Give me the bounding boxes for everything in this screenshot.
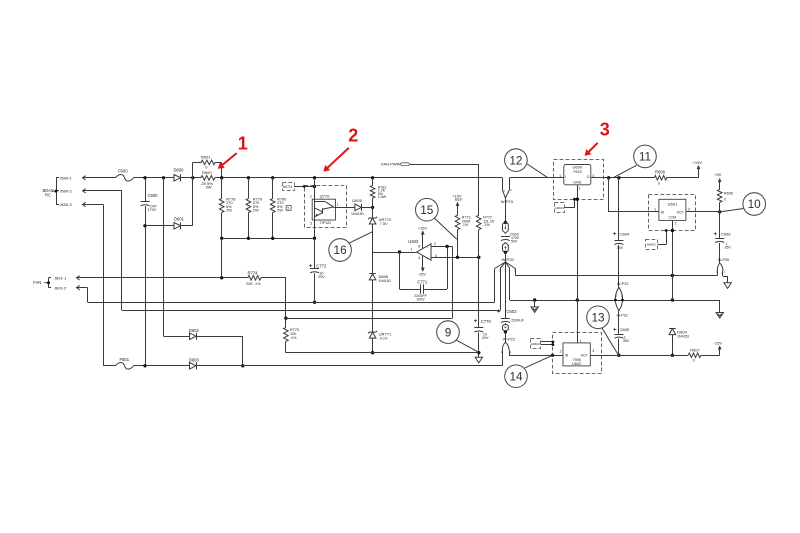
svg-text:.1%: .1% <box>462 223 469 227</box>
svg-text:1N4150: 1N4150 <box>351 212 364 216</box>
zener UR771 <box>368 331 377 334</box>
callout circle 13 <box>601 327 618 356</box>
svg-text:J600-2: J600-2 <box>60 188 73 193</box>
svg-text:D600: D600 <box>174 168 185 173</box>
heatsink H6602 <box>531 339 541 349</box>
svg-text:0: 0 <box>724 198 726 202</box>
svg-text:11: 11 <box>639 150 651 164</box>
svg-text:35V: 35V <box>623 339 630 343</box>
callout circle 9 <box>456 340 479 353</box>
svg-text:12: 12 <box>509 153 522 167</box>
svg-text:50V: 50V <box>511 240 518 244</box>
svg-text:J600-3: J600-3 <box>60 202 73 207</box>
wire D601 cathode up to rail node <box>192 178 194 226</box>
callout circle 12 <box>527 164 548 178</box>
svg-text:1N4150: 1N4150 <box>379 279 391 283</box>
svg-text:1: 1 <box>337 203 339 207</box>
wire W-P25 leg5 bus <box>515 269 517 276</box>
svg-text:C605: C605 <box>620 327 630 332</box>
svg-text:-15V: -15V <box>418 271 427 276</box>
wire U600 GND column <box>577 185 579 343</box>
wire U602 OUT line <box>590 355 688 357</box>
wire U603 output <box>373 252 417 254</box>
svg-text:C772: C772 <box>316 264 327 269</box>
svg-text:C606: C606 <box>721 231 731 236</box>
transistor Q770 dashed box <box>305 186 347 228</box>
capacitor C603 <box>497 311 500 313</box>
wire J600-1 to fuse F600 <box>83 177 116 179</box>
svg-text:2200UF: 2200UF <box>511 319 525 323</box>
capacitor C600 <box>145 178 147 202</box>
wire D600 cathode to node <box>181 177 201 179</box>
ground on leg4 bus <box>534 300 536 307</box>
regulator U601 dashed box <box>649 195 696 231</box>
svg-text:H6602: H6602 <box>531 342 540 346</box>
svg-text:2: 2 <box>310 194 312 198</box>
svg-text:-15V: -15V <box>714 341 723 346</box>
svg-text:7.5V: 7.5V <box>380 222 388 226</box>
svg-text:9: 9 <box>445 325 452 339</box>
regulator U600 dashed box <box>554 160 604 200</box>
wire FAN PWR to R772 <box>410 164 479 166</box>
svg-text:REF: REF <box>455 198 463 202</box>
svg-text:4: 4 <box>418 256 420 260</box>
transistor Q770 TIP122 <box>314 178 316 199</box>
svg-text:D602: D602 <box>189 328 200 333</box>
svg-text:+15V: +15V <box>693 160 703 165</box>
svg-text:3: 3 <box>592 349 594 353</box>
svg-text:13: 13 <box>591 311 605 325</box>
svg-text:3: 3 <box>600 119 610 139</box>
svg-text:OUT: OUT <box>677 211 684 215</box>
wire rail through U600 to R606 <box>510 177 564 179</box>
regulator U602 7905 <box>563 343 590 366</box>
svg-text:TIP122: TIP122 <box>320 221 332 225</box>
svg-text:2: 2 <box>675 222 677 226</box>
regulator U601 <box>659 199 686 220</box>
svg-text:R601: R601 <box>201 155 211 160</box>
svg-text:1N4150: 1N4150 <box>677 334 689 338</box>
svg-text:F600: F600 <box>118 169 128 174</box>
boxed label 5 near R780 <box>286 206 291 211</box>
svg-text:FAN: FAN <box>33 280 41 285</box>
svg-text:35V: 35V <box>617 246 624 250</box>
svg-text:.1%: .1% <box>483 223 490 227</box>
capacitor C606 <box>714 233 717 235</box>
svg-text:C604: C604 <box>620 232 630 237</box>
svg-text:H6603: H6603 <box>647 243 656 247</box>
connector pin W-P23 lower <box>503 223 509 234</box>
svg-text:GND: GND <box>573 181 581 185</box>
callout circle 10 <box>720 209 744 212</box>
svg-text:20V: 20V <box>482 336 489 340</box>
svg-text:8: 8 <box>418 244 420 248</box>
wire line B <box>122 310 500 312</box>
supply -15V arrow <box>719 349 721 355</box>
wire line A <box>88 302 495 304</box>
svg-text:RC: RC <box>45 193 51 198</box>
svg-text:R774: R774 <box>248 270 259 275</box>
wire Q770 emitter to bottom rail <box>314 220 316 238</box>
regulator U600 7915 <box>564 165 591 185</box>
svg-text:C770: C770 <box>481 319 492 324</box>
svg-text:Q770: Q770 <box>320 193 331 198</box>
wire D603 line up to W-P22 <box>502 350 504 366</box>
svg-text:16: 16 <box>334 243 348 257</box>
wire bank bottom down to R774 line <box>221 238 223 277</box>
svg-text:U601: U601 <box>668 202 678 207</box>
svg-text:1/4W: 1/4W <box>378 195 387 199</box>
wire rail to C604 <box>618 178 620 240</box>
svg-text:170V: 170V <box>148 208 157 212</box>
svg-text:2: 2 <box>560 349 562 353</box>
svg-text:14: 14 <box>509 369 523 383</box>
callout circle 15 <box>434 217 457 239</box>
svg-text:.1%: .1% <box>290 336 297 340</box>
wire R772 bottom to C770 <box>478 257 480 327</box>
regulator U602 dashed box <box>553 333 602 374</box>
wire W-P25 leg2 to line B <box>500 269 502 311</box>
connector pin W-P25 upper <box>503 243 509 252</box>
svg-text:W-P22: W-P22 <box>503 336 516 341</box>
wire J601-2 to line A <box>77 287 88 289</box>
svg-text:I: I <box>565 175 566 179</box>
svg-text:22K .1%: 22K .1% <box>246 282 261 286</box>
svg-text:2W: 2W <box>277 207 283 212</box>
svg-text:C603: C603 <box>506 309 517 314</box>
wire resistor bank bottom rail <box>222 238 315 240</box>
connector W-P23 <box>502 178 504 190</box>
wire R774 down to line C <box>285 278 287 318</box>
svg-text:F601: F601 <box>120 357 130 362</box>
ground at W-P30 <box>722 271 724 276</box>
svg-text:+5V: +5V <box>714 172 722 177</box>
wire J601-1 R774 line <box>77 277 248 279</box>
svg-text:R606: R606 <box>655 170 666 175</box>
svg-text:R600: R600 <box>202 170 212 175</box>
callout circle 11 <box>613 165 637 178</box>
U603 -15V supply <box>422 256 424 268</box>
wire C600 bottom to F601 line <box>145 226 147 366</box>
wire W-P25 leg1 to line A <box>494 269 496 303</box>
wire U603 pin2 <box>431 246 452 248</box>
svg-text:COM: COM <box>669 215 677 219</box>
svg-text:20V: 20V <box>318 275 325 279</box>
svg-text:D601: D601 <box>174 216 185 221</box>
svg-text:C600: C600 <box>148 193 159 198</box>
heatsink H6601 <box>555 203 565 213</box>
wire line C to U603 pin2 riser <box>286 318 452 320</box>
heatsink H6721 <box>283 183 295 191</box>
svg-text:3W: 3W <box>206 185 212 190</box>
diode D606 <box>369 273 376 275</box>
svg-text:W-P23: W-P23 <box>501 199 514 204</box>
svg-text:FAN PWR: FAN PWR <box>381 162 399 167</box>
wire J600-2 vertical <box>83 190 122 192</box>
svg-text:1: 1 <box>580 339 582 343</box>
svg-text:D605: D605 <box>352 198 362 203</box>
wire W-P22 right pin to U602 IN <box>509 350 511 355</box>
svg-text:J601-1: J601-1 <box>54 275 67 280</box>
callout circle 14 <box>525 355 553 368</box>
svg-text:5: 5 <box>287 207 289 211</box>
resistor R781 <box>372 178 374 186</box>
wire UR771 bottom line <box>286 352 479 354</box>
svg-text:35V: 35V <box>725 245 732 249</box>
resistor R780 <box>272 178 274 199</box>
svg-text:3: 3 <box>310 221 312 225</box>
wire U601 COM column <box>672 220 674 300</box>
resistor R778 <box>221 178 223 199</box>
svg-text:100V: 100V <box>416 297 425 301</box>
wire main rail R600 to W-P23 <box>215 177 503 179</box>
resistor R772 <box>476 215 481 230</box>
svg-text:R607: R607 <box>690 347 700 352</box>
ground at C770 <box>478 353 480 358</box>
callout circle 16 <box>349 232 373 244</box>
capacitor C604 <box>613 233 616 235</box>
resistor R773 <box>456 202 459 206</box>
svg-text:1: 1 <box>411 247 413 251</box>
diode D604 <box>669 328 676 330</box>
svg-text:W-P30: W-P30 <box>718 258 730 262</box>
svg-text:7915: 7915 <box>573 169 583 174</box>
svg-text:2W: 2W <box>226 207 232 212</box>
wire rail to U601 IN <box>608 178 610 212</box>
capacitor C771 feedback <box>399 252 401 289</box>
svg-text:0: 0 <box>693 358 695 362</box>
svg-text:J601-2: J601-2 <box>54 285 67 290</box>
resistor R775 <box>285 318 287 327</box>
capacitor C772 <box>314 238 316 268</box>
connector J600 bracket <box>56 178 58 205</box>
wire J600-3 vertical <box>83 204 104 206</box>
svg-text:OUT: OUT <box>581 353 588 357</box>
wire rail to D602 <box>163 178 165 336</box>
svg-text:2: 2 <box>434 242 436 246</box>
wire U603 pin3 <box>431 257 479 259</box>
svg-text:R605: R605 <box>724 191 733 195</box>
svg-text:2: 2 <box>348 126 358 146</box>
wire F600 to D600 anode <box>134 177 175 179</box>
svg-text:0: 0 <box>658 181 660 185</box>
wire W-P25 leg4 ground bus <box>509 269 511 301</box>
svg-text:3: 3 <box>688 207 690 211</box>
wire W-P25 leg3 to C603 <box>505 269 507 319</box>
capacitor C602 <box>501 236 510 238</box>
svg-text:H6721: H6721 <box>283 185 293 189</box>
zener UR770 <box>368 217 377 220</box>
svg-text:2W: 2W <box>253 207 259 212</box>
wire Q770 collector to D605 <box>336 207 355 209</box>
svg-text:1: 1 <box>654 207 656 211</box>
svg-text:D603: D603 <box>189 358 200 363</box>
svg-text:9.1V: 9.1V <box>380 336 388 340</box>
wire R605 to C606 <box>719 212 721 238</box>
resistor R601 parallel branch <box>192 162 194 177</box>
resistor R779 <box>248 178 250 199</box>
capacitor C770 <box>474 320 477 322</box>
capacitor C605 <box>613 329 616 331</box>
svg-text:15: 15 <box>420 203 434 217</box>
connector J601 bracket <box>48 278 50 288</box>
svg-text:O: O <box>587 175 590 179</box>
svg-text:C771: C771 <box>417 280 428 285</box>
connector pin W-P22 upper <box>503 325 509 332</box>
ground at leg4 bus right end <box>719 300 721 313</box>
wire U601 OUT <box>686 211 720 213</box>
svg-text:W-P32: W-P32 <box>617 282 629 286</box>
svg-text:U602: U602 <box>572 362 581 366</box>
svg-text:+15V: +15V <box>418 225 428 230</box>
heatsink H6603 <box>646 240 658 250</box>
wire D602 down to D603 line <box>242 336 244 366</box>
svg-text:10: 10 <box>748 197 762 211</box>
supply +15V arrow <box>698 169 700 178</box>
svg-text:H6601: H6601 <box>555 206 564 210</box>
svg-text:2: 2 <box>579 187 581 191</box>
svg-text:J600-1: J600-1 <box>60 175 73 180</box>
resistor R605 <box>717 189 722 202</box>
svg-text:W-P25: W-P25 <box>502 257 515 262</box>
svg-text:1: 1 <box>238 133 248 153</box>
